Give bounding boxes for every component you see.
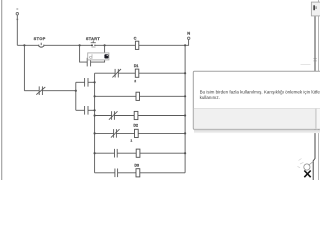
contact C2 (NO) xyxy=(85,106,88,115)
wire rung4 b xyxy=(114,115,134,117)
wire mid rail xyxy=(94,73,96,173)
wire left rail xyxy=(23,45,25,90)
contact STOP (NC pushbutton) xyxy=(39,43,44,47)
node rung3 rail xyxy=(184,95,186,97)
node rung2 rail xyxy=(184,72,186,74)
node mid rail rung4 xyxy=(94,114,96,116)
coil D2 xyxy=(135,129,139,137)
wire rung6 c xyxy=(140,152,185,154)
svg-text:kullanınız.: kullanınız. xyxy=(200,95,220,100)
power wire right column lower xyxy=(313,130,315,180)
coil 4 xyxy=(134,111,138,119)
wire rung7 a xyxy=(95,172,115,174)
terminal N xyxy=(188,37,190,39)
coil D3 xyxy=(136,169,140,177)
svg-text:N: N xyxy=(187,31,190,36)
svg-text:D3: D3 xyxy=(134,164,139,168)
node rung4 rail xyxy=(184,114,186,116)
contact rung4 NC xyxy=(109,111,118,120)
wire rung2 b xyxy=(118,72,135,74)
warning badge icon xyxy=(104,54,108,58)
node mid rail rung3 xyxy=(94,95,96,97)
svg-text:STOP: STOP xyxy=(34,37,46,41)
coil C xyxy=(135,41,138,49)
node seal branch right xyxy=(104,44,106,46)
svg-text:D2: D2 xyxy=(133,123,138,127)
contact C1 (NO) xyxy=(85,78,88,87)
node rung1 right rail junction xyxy=(184,44,186,46)
node mid rail rung6 xyxy=(94,152,96,154)
svg-text:START: START xyxy=(86,37,101,41)
lamp H1 xyxy=(304,164,311,177)
wire rung4 a xyxy=(95,115,112,117)
tooltip warning popup xyxy=(193,71,320,133)
faint annotation scribbles xyxy=(298,159,304,168)
faint wire stub left of power column xyxy=(301,64,311,66)
wire lamp connector xyxy=(309,162,314,166)
svg-text:C: C xyxy=(134,36,137,40)
wire rung2 a xyxy=(95,72,116,74)
coil D1 xyxy=(135,69,139,77)
wire rung-left segment b xyxy=(42,90,75,92)
wire rung1 segment b xyxy=(44,44,93,46)
contact rung5 NC xyxy=(111,129,120,138)
coil 3 xyxy=(136,92,140,100)
wire rung2 c xyxy=(139,72,185,74)
wire seal branch right xyxy=(91,45,105,62)
node mini-rail junction xyxy=(75,90,77,92)
wire rung5 c xyxy=(138,132,185,134)
wire branch A left xyxy=(76,81,85,83)
svg-text:Bu isim birden fazla kullanılm: Bu isim birden fazla kullanılmış. Karışı… xyxy=(200,89,320,94)
wire branch B right xyxy=(88,109,95,111)
contact D1 NC xyxy=(112,69,121,78)
contact START (NO pushbutton) xyxy=(91,41,96,48)
node rung5 rail xyxy=(184,132,186,134)
contact on power wire xyxy=(314,58,317,60)
wire rung5 b xyxy=(116,132,134,134)
wire rung4 c xyxy=(138,115,185,117)
top right button xyxy=(311,2,320,16)
power wire right column upper xyxy=(314,16,316,71)
wire rung-left segment a xyxy=(24,90,39,92)
wire rung1 segment c xyxy=(95,44,136,46)
wire seal branch xyxy=(80,45,88,62)
rename edit box xyxy=(88,53,109,60)
wire rung7 c xyxy=(140,172,185,174)
node mid rail branch B xyxy=(94,109,96,111)
node mid rail rung5 xyxy=(94,132,96,134)
svg-text:D1: D1 xyxy=(134,64,139,68)
wire branch B left xyxy=(76,109,85,111)
wire rung6 a xyxy=(95,152,115,154)
wire L1 drop xyxy=(16,15,18,45)
wire rung1 segment d xyxy=(139,44,185,46)
wire rung3 a xyxy=(95,95,136,97)
wire N drop jog xyxy=(185,40,189,46)
wire branch A right xyxy=(88,81,95,83)
wire rung1 segment a xyxy=(17,44,39,46)
wire mini rail xyxy=(75,82,77,110)
node rung6 rail xyxy=(184,152,186,154)
node seal branch left xyxy=(79,44,81,46)
contact K NC xyxy=(36,86,45,95)
terminal L1 xyxy=(16,8,18,20)
contact C seal-in (NO) xyxy=(87,58,90,67)
node rung1 left rail junction xyxy=(23,44,25,46)
wire rung3 b xyxy=(140,95,186,97)
node mid rail branch A xyxy=(94,81,96,83)
wire right rail xyxy=(184,45,186,173)
wire rung6 b xyxy=(117,152,136,154)
wire rung5 a xyxy=(95,132,114,134)
contact rung6 NO xyxy=(115,149,118,158)
contact rung7 NO xyxy=(115,169,118,178)
coil 6 xyxy=(136,149,140,157)
wire rung7 b xyxy=(118,172,136,174)
